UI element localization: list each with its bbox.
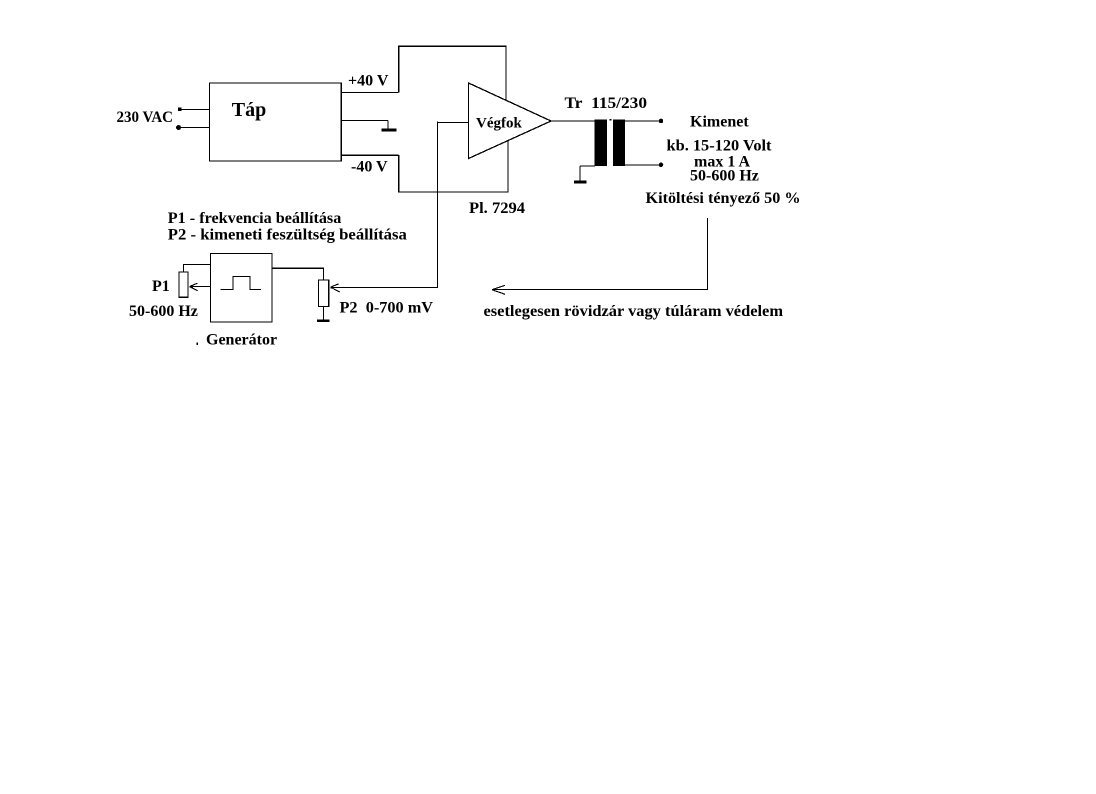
svg-text:+40 V: +40 V xyxy=(348,73,389,90)
svg-text:P2 0-700 mV: P2 0-700 mV xyxy=(340,300,434,317)
svg-text:50-600 Hz: 50-600 Hz xyxy=(690,168,759,185)
svg-text:esetlegesen rövidzár vagy túlá: esetlegesen rövidzár vagy túláram védele… xyxy=(484,303,784,320)
svg-text:Végfok: Végfok xyxy=(476,116,522,132)
svg-text:kb. 15-120 Volt: kb. 15-120 Volt xyxy=(667,138,773,155)
svg-text:-40 V: -40 V xyxy=(351,159,388,176)
svg-text:Tr 115/230: Tr 115/230 xyxy=(565,95,648,112)
svg-text:Kimenet: Kimenet xyxy=(690,114,749,131)
svg-text:50-600 Hz: 50-600 Hz xyxy=(129,303,198,320)
svg-text:Kitöltési tényező 50 %: Kitöltési tényező 50 % xyxy=(646,190,801,207)
svg-text:Táp: Táp xyxy=(232,99,266,121)
svg-text:P2 - kimeneti feszültség beáll: P2 - kimeneti feszültség beállítása xyxy=(168,227,407,244)
svg-text:Generátor: Generátor xyxy=(206,332,277,349)
svg-text:Pl. 7294: Pl. 7294 xyxy=(469,200,525,217)
svg-text:P1 - frekvencia beállítása: P1 - frekvencia beállítása xyxy=(168,210,341,227)
svg-text:P1: P1 xyxy=(152,278,170,295)
svg-text:230 VAC: 230 VAC xyxy=(117,109,174,126)
